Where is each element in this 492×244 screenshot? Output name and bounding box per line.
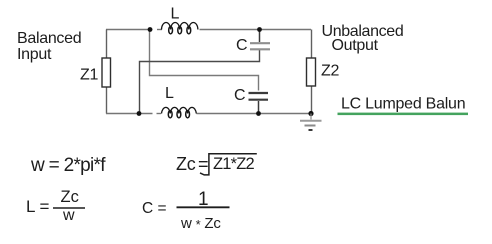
svg-text:=: = [198, 154, 209, 174]
wire: top rail left segment (IN+ node to L1) [106, 29, 153, 31]
svg-text:Zc: Zc [176, 154, 196, 174]
wire: bottom rail left segment [106, 113, 153, 115]
wire: C2 bottom lead to ground rail [258, 101, 260, 114]
node: junction dot OUT (top right) [257, 27, 262, 32]
fraction bar (1 over w*Zc) [177, 206, 230, 208]
svg-text:Z1: Z1 [80, 67, 98, 84]
svg-text:L =: L = [26, 197, 50, 216]
node: junction dot ground [308, 111, 313, 116]
capacitor C2 (bottom, plates) [249, 93, 269, 100]
resistor Z1 (box) [102, 58, 111, 87]
wire: right vertical from top rail to Z2 [311, 30, 313, 59]
node: junction dot IN+ (top left) [148, 27, 153, 32]
wire: left vertical from top rail to Z1 [106, 30, 108, 59]
svg-text:1: 1 [198, 189, 209, 210]
svg-text:LC Lumped Balun: LC Lumped Balun [341, 96, 465, 113]
svg-text:w = 2*pi*f: w = 2*pi*f [30, 155, 106, 176]
svg-text:L: L [171, 6, 180, 23]
svg-text:Z1*Z2: Z1*Z2 [213, 155, 255, 173]
wire: crossover B from C1 bottom down, left, to IN- node [140, 50, 260, 114]
svg-text:w: w [62, 207, 75, 224]
svg-text:Z2: Z2 [321, 63, 339, 80]
svg-text:Balanced: Balanced [17, 30, 81, 47]
wire: bottom rail dash before coil [157, 113, 162, 115]
svg-text:w * Zc: w * Zc [180, 215, 221, 232]
node: junction dot C2/ground rail [256, 111, 261, 116]
svg-text:Input: Input [17, 46, 52, 63]
resistor Z2 (box) [307, 58, 316, 86]
svg-text:C =: C = [142, 200, 167, 217]
wire: bottom rail right segment (L2 to ground node) [197, 113, 312, 115]
sqrt radical sign [200, 154, 257, 175]
svg-text:Zc: Zc [61, 188, 79, 206]
svg-text:C: C [234, 87, 246, 104]
wire: C1 top lead from OUT node [259, 30, 261, 43]
capacitor C1 (top, plates) [250, 43, 270, 49]
inductor L1 (top coil) [162, 22, 198, 33]
node: junction dot IN- (bottom left) [137, 111, 142, 116]
wire: right vertical from Z2 to ground node [311, 86, 313, 114]
svg-text:C: C [236, 37, 248, 54]
wire: crossover A from IN+ node down, right, to C2 top [150, 30, 259, 91]
inductor L2 (bottom coil) [162, 107, 197, 118]
ground symbol [300, 114, 322, 131]
wire: top rail right segment (L1 to OUT corner) [200, 29, 312, 31]
svg-text:L: L [165, 85, 174, 102]
svg-text:Output: Output [332, 37, 379, 54]
fraction bar (Zc over w) [53, 207, 85, 209]
wire: left vertical from Z1 to bottom rail [106, 87, 108, 114]
wire: top rail dash before coil [157, 29, 162, 31]
title green underline [338, 113, 469, 116]
